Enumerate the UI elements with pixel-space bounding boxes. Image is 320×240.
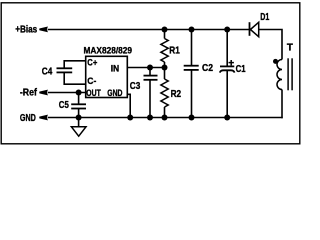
node -Ref arrow [39, 90, 48, 96]
wire C1 to ground rail [226, 70, 228, 117]
node C2 ground junction [189, 115, 195, 121]
wire +Bias top rail [48, 29, 250, 31]
border frame [1, 3, 300, 144]
svg-text:R2: R2 [171, 89, 182, 100]
wire C1 top lead [226, 30, 228, 67]
capacitor C5 [71, 104, 86, 108]
svg-text:T: T [287, 42, 293, 53]
node C1 top junction [224, 27, 230, 33]
node C2 top junction [189, 27, 195, 33]
wire C2 top lead [191, 30, 193, 66]
node GND pin junction [127, 115, 133, 121]
wire C2 to ground rail [191, 70, 193, 118]
svg-text:IN: IN [111, 63, 120, 74]
svg-text:MAX828/829: MAX828/829 [84, 45, 133, 56]
wire C3 top lead [149, 68, 151, 76]
wire GND pin to ground rail [127, 94, 130, 117]
transformer T primary winding [277, 60, 282, 90]
diode D1 [250, 22, 259, 37]
capacitor C4 [57, 68, 73, 72]
svg-text:C2: C2 [202, 63, 213, 74]
node R2 ground junction [162, 115, 168, 121]
wire OUT to -Ref [48, 92, 86, 94]
node C3 ground junction [147, 115, 153, 121]
svg-text:C1: C1 [236, 64, 246, 75]
wire IN pin to divider [127, 67, 164, 69]
node C1 ground junction [224, 115, 230, 121]
transformer T phase dot [273, 59, 278, 64]
wire OUT junction to C5 [78, 93, 80, 105]
node +Bias arrow [39, 27, 48, 33]
node GND arrow [39, 115, 48, 121]
wire ground bottom rail [48, 117, 283, 119]
svg-text:GND: GND [20, 113, 36, 124]
resistor R2 [161, 68, 168, 118]
wire C5 to ground rail [78, 109, 80, 118]
wire D1 anode to transformer [259, 30, 282, 60]
node C3 top junction [147, 65, 153, 71]
wire C3 to ground rail [149, 80, 151, 118]
svg-text:GND: GND [107, 88, 122, 99]
svg-text:C4: C4 [42, 66, 53, 77]
svg-text:C+: C+ [87, 58, 97, 69]
capacitor C1 [220, 66, 235, 72]
node OUT junction [76, 90, 82, 96]
polarity + mark C1 [229, 60, 234, 65]
wire transformer bottom to ground rail [281, 90, 283, 119]
capacitor C2 [184, 66, 199, 70]
wire C4 to C- pin [64, 72, 86, 84]
node R1 top junction [162, 27, 168, 33]
resistor R1 [161, 30, 168, 68]
transformer T core [288, 58, 292, 90]
node R1 R2 junction [162, 65, 168, 71]
svg-text:+Bias: +Bias [15, 24, 37, 35]
svg-text:C-: C- [87, 76, 96, 87]
wire C+ pin to C4 [64, 61, 86, 69]
op-amp U1 MAX828/829 body [86, 56, 128, 97]
svg-text:C5: C5 [59, 100, 69, 111]
svg-text:-Ref: -Ref [20, 87, 38, 98]
ground symbol [71, 118, 86, 137]
svg-text:OUT: OUT [86, 88, 101, 99]
svg-text:R1: R1 [169, 45, 180, 56]
capacitor C3 [144, 76, 158, 80]
svg-text:C3: C3 [130, 81, 141, 92]
svg-text:D1: D1 [260, 12, 269, 23]
node C5 ground junction [76, 115, 82, 121]
